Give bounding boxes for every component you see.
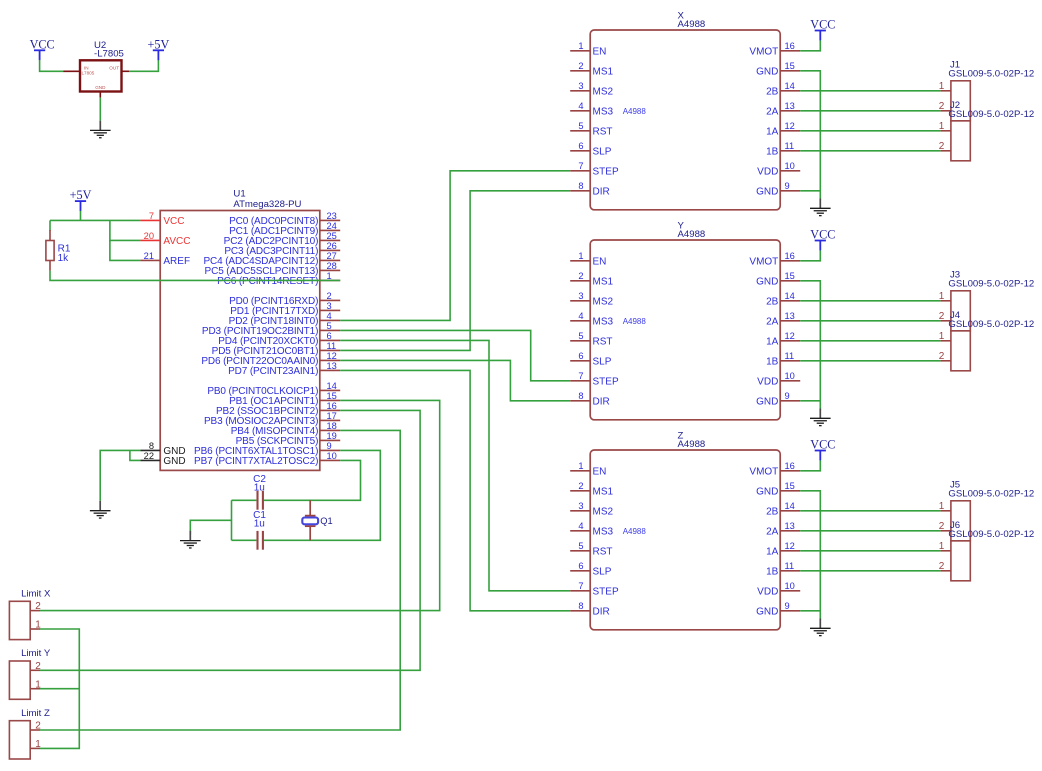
svg-text:1B: 1B bbox=[766, 357, 779, 368]
wire +5V down to R1 bbox=[49, 220, 51, 230]
wire branch to AVCC/AREF bbox=[110, 220, 140, 260]
wire motor phase bbox=[800, 110, 940, 112]
J3 pin 2 bbox=[941, 320, 951, 322]
svg-text:9: 9 bbox=[785, 601, 790, 611]
svg-text:AVCC: AVCC bbox=[163, 236, 190, 247]
svg-text:4: 4 bbox=[578, 101, 583, 111]
J2 pin 1 bbox=[941, 130, 951, 132]
wire +5V horizontal to U1.VCC bbox=[50, 219, 140, 221]
svg-text:1u: 1u bbox=[254, 518, 265, 529]
U1 pin 22 GND bbox=[140, 459, 160, 461]
capacitor C1 1u bbox=[253, 510, 266, 550]
wire crystal left vertical bbox=[231, 500, 233, 540]
Y1 pin 6 SLP bbox=[570, 360, 590, 362]
wire U2.OUT to +5V bbox=[129, 60, 158, 71]
svg-text:2: 2 bbox=[939, 141, 945, 152]
ground (crystal) bbox=[180, 531, 201, 548]
svg-text:8: 8 bbox=[578, 181, 583, 191]
svg-text:3: 3 bbox=[578, 501, 583, 511]
U1 pin 26 PC3 bbox=[320, 249, 340, 251]
svg-text:RST: RST bbox=[593, 547, 613, 558]
wire U2.GND down bbox=[99, 98, 101, 121]
X1 pin 10 VDD bbox=[780, 170, 800, 172]
wire crystal net to ground bbox=[190, 520, 231, 534]
svg-text:14: 14 bbox=[785, 501, 795, 511]
svg-text:2: 2 bbox=[578, 481, 583, 491]
X1 pin 11 1B bbox=[780, 150, 800, 152]
svg-text:8: 8 bbox=[149, 441, 154, 451]
svg-text:A4988: A4988 bbox=[623, 527, 647, 536]
wire motor phase bbox=[800, 360, 940, 362]
svg-text:PD7 (PCINT23AIN1): PD7 (PCINT23AIN1) bbox=[228, 366, 318, 377]
Z1 pin 16 VMOT bbox=[780, 470, 800, 472]
svg-text:28: 28 bbox=[327, 261, 337, 271]
connector J2 GSL009-5.0-02P-12 bbox=[939, 100, 1035, 161]
power flag VCC (input) bbox=[30, 37, 55, 60]
svg-text:1A: 1A bbox=[766, 337, 779, 348]
svg-text:MS2: MS2 bbox=[593, 87, 614, 98]
svg-text:RST: RST bbox=[593, 337, 613, 348]
svg-text:4: 4 bbox=[578, 311, 583, 321]
svg-text:GSL009-5.0-02P-12: GSL009-5.0-02P-12 bbox=[948, 69, 1034, 80]
wire motor phase bbox=[800, 300, 940, 302]
svg-text:5: 5 bbox=[578, 121, 583, 131]
crystal Q1 bbox=[302, 500, 332, 540]
X1 pin 3 MS2 bbox=[570, 90, 590, 92]
svg-text:8: 8 bbox=[578, 601, 583, 611]
wire GND9 join bbox=[800, 190, 820, 192]
svg-text:MS1: MS1 bbox=[593, 67, 614, 78]
ground (below U2) bbox=[90, 121, 111, 138]
svg-text:25: 25 bbox=[327, 231, 337, 241]
svg-text:1k: 1k bbox=[58, 253, 70, 264]
X1 pin 15 GND bbox=[780, 70, 800, 72]
wire VMOT to VCC bbox=[800, 250, 820, 261]
svg-text:11: 11 bbox=[785, 561, 795, 571]
svg-text:2B: 2B bbox=[766, 87, 779, 98]
svg-text:14: 14 bbox=[785, 81, 795, 91]
svg-text:1A: 1A bbox=[766, 547, 779, 558]
svg-text:3: 3 bbox=[578, 81, 583, 91]
svg-text:9: 9 bbox=[785, 181, 790, 191]
svg-text:1B: 1B bbox=[766, 147, 779, 158]
svg-text:GSL009-5.0-02P-12: GSL009-5.0-02P-12 bbox=[948, 529, 1034, 540]
svg-text:SLP: SLP bbox=[593, 357, 612, 368]
svg-text:STEP: STEP bbox=[593, 167, 619, 178]
svg-text:STEP: STEP bbox=[593, 587, 619, 598]
U1 pin 6 PD4 bbox=[320, 339, 340, 341]
Y1 pin 5 RST bbox=[570, 340, 590, 342]
svg-text:2A: 2A bbox=[766, 107, 779, 118]
svg-text:AREF: AREF bbox=[163, 256, 190, 267]
X1 pin 5 RST bbox=[570, 130, 590, 132]
U1 pin 8 GND bbox=[140, 449, 160, 451]
svg-text:16: 16 bbox=[785, 251, 795, 261]
wire PB4 to Limit Z pin2 bbox=[40, 430, 400, 730]
svg-text:11: 11 bbox=[785, 351, 795, 361]
svg-text:2: 2 bbox=[578, 61, 583, 71]
svg-text:1: 1 bbox=[939, 121, 945, 132]
svg-text:13: 13 bbox=[785, 521, 795, 531]
svg-text:MS2: MS2 bbox=[593, 507, 614, 518]
Z1 pin 9 GND bbox=[780, 610, 800, 612]
svg-text:1: 1 bbox=[939, 501, 945, 512]
Z1 pin 1 EN bbox=[570, 470, 590, 472]
wire PD5 to X.DIR bbox=[340, 191, 570, 351]
svg-text:GND: GND bbox=[756, 277, 778, 288]
svg-text:4: 4 bbox=[327, 311, 332, 321]
connector J1 GSL009-5.0-02P-12 bbox=[939, 60, 1035, 121]
svg-text:1: 1 bbox=[578, 41, 583, 51]
wire VCC to U2.IN bbox=[40, 60, 64, 71]
svg-text:2: 2 bbox=[939, 311, 945, 322]
ground (A4988) bbox=[810, 199, 831, 216]
U1 pin 11 PD5 bbox=[320, 349, 340, 351]
svg-text:GSL009-5.0-02P-12: GSL009-5.0-02P-12 bbox=[948, 109, 1034, 120]
X1 pin 16 VMOT bbox=[780, 50, 800, 52]
connector Limit X bbox=[9, 589, 51, 640]
svg-text:7: 7 bbox=[578, 371, 583, 381]
wire GND15 down bbox=[800, 71, 820, 200]
svg-text:Limit Y: Limit Y bbox=[21, 648, 51, 659]
svg-text:A4988: A4988 bbox=[623, 317, 647, 326]
svg-text:1: 1 bbox=[939, 331, 945, 342]
wire motor phase bbox=[800, 340, 940, 342]
svg-text:27: 27 bbox=[327, 251, 337, 261]
svg-text:6: 6 bbox=[327, 331, 332, 341]
wire GND9 join bbox=[800, 400, 820, 402]
svg-text:RST: RST bbox=[593, 127, 613, 138]
svg-text:VCC: VCC bbox=[810, 438, 835, 452]
svg-text:GND: GND bbox=[756, 607, 778, 618]
svg-text:12: 12 bbox=[785, 541, 795, 551]
X1 pin 9 GND bbox=[780, 190, 800, 192]
svg-text:GND: GND bbox=[163, 456, 185, 467]
svg-text:7: 7 bbox=[578, 161, 583, 171]
J6 pin 1 bbox=[941, 550, 951, 552]
X1 pin 6 SLP bbox=[570, 150, 590, 152]
svg-text:A4988: A4988 bbox=[678, 439, 706, 450]
svg-text:MS1: MS1 bbox=[593, 487, 614, 498]
wire motor phase bbox=[800, 320, 940, 322]
svg-text:1B: 1B bbox=[766, 567, 779, 578]
svg-text:12: 12 bbox=[785, 121, 795, 131]
connector Limit Z bbox=[9, 708, 50, 759]
J2 pin 2 bbox=[941, 150, 951, 152]
svg-text:VCC: VCC bbox=[810, 228, 835, 242]
svg-text:ATmega328-PU: ATmega328-PU bbox=[233, 199, 301, 210]
Y1 pin 1 EN bbox=[570, 260, 590, 262]
svg-text:16: 16 bbox=[785, 41, 795, 51]
connector J6 GSL009-5.0-02P-12 bbox=[939, 520, 1035, 581]
J5 pin 1 bbox=[941, 510, 951, 512]
svg-text:1: 1 bbox=[939, 81, 945, 92]
wire PB2 to Limit Y pin2 bbox=[40, 410, 420, 670]
J1 pin 1 bbox=[941, 90, 951, 92]
capacitor C2 1u bbox=[253, 474, 266, 510]
svg-text:11: 11 bbox=[785, 141, 795, 151]
svg-text:GSL009-5.0-02P-12: GSL009-5.0-02P-12 bbox=[948, 489, 1034, 500]
U1 pin 2 PD0 bbox=[320, 299, 340, 301]
svg-text:7: 7 bbox=[578, 581, 583, 591]
Y1 pin 3 MS2 bbox=[570, 300, 590, 302]
svg-text:2A: 2A bbox=[766, 527, 779, 538]
U1 pin 28 PC5 bbox=[320, 269, 340, 271]
svg-text:10: 10 bbox=[785, 581, 795, 591]
svg-text:DIR: DIR bbox=[593, 187, 610, 198]
wire VMOT to VCC bbox=[800, 460, 820, 471]
U1 pin 14 PB0 bbox=[320, 389, 340, 391]
svg-text:2: 2 bbox=[578, 271, 583, 281]
wire R1 to RESET (PC6) bbox=[50, 271, 340, 281]
J1 pin 2 bbox=[941, 110, 951, 112]
Z1 pin 11 1B bbox=[780, 570, 800, 572]
svg-text:GND: GND bbox=[756, 397, 778, 408]
wire GND15 down bbox=[800, 281, 820, 410]
wire PD6 to Y.DIR bbox=[340, 360, 570, 400]
svg-text:6: 6 bbox=[578, 141, 583, 151]
X1 pin 2 MS1 bbox=[570, 70, 590, 72]
wire +5V stem to net bbox=[80, 211, 82, 221]
svg-text:10: 10 bbox=[785, 161, 795, 171]
svg-text:13: 13 bbox=[785, 101, 795, 111]
svg-text:24: 24 bbox=[327, 221, 337, 231]
svg-text:SLP: SLP bbox=[593, 147, 612, 158]
svg-text:16: 16 bbox=[785, 461, 795, 471]
svg-text:GND: GND bbox=[756, 187, 778, 198]
svg-text:VMOT: VMOT bbox=[749, 257, 778, 268]
Z1 pin 13 2A bbox=[780, 530, 800, 532]
svg-text:5: 5 bbox=[578, 541, 583, 551]
svg-text:STEP: STEP bbox=[593, 377, 619, 388]
svg-text:13: 13 bbox=[327, 361, 337, 371]
wire GND15 down bbox=[800, 491, 820, 620]
ground (A4988) bbox=[810, 409, 831, 426]
svg-text:MS2: MS2 bbox=[593, 297, 614, 308]
svg-text:VDD: VDD bbox=[757, 377, 778, 388]
svg-text:9: 9 bbox=[785, 391, 790, 401]
svg-text:6: 6 bbox=[578, 351, 583, 361]
ground (A4988) bbox=[810, 619, 831, 636]
Y1 pin 11 1B bbox=[780, 360, 800, 362]
svg-text:VMOT: VMOT bbox=[749, 47, 778, 58]
J4 pin 2 bbox=[941, 360, 951, 362]
U1 pin 3 PD1 bbox=[320, 309, 340, 311]
Z1 pin 5 RST bbox=[570, 550, 590, 552]
U1 pin 20 AVCC bbox=[140, 239, 160, 241]
svg-text:2: 2 bbox=[327, 291, 332, 301]
X1 pin 13 2A bbox=[780, 110, 800, 112]
svg-text:2B: 2B bbox=[766, 507, 779, 518]
Y1 pin 12 1A bbox=[780, 340, 800, 342]
svg-text:26: 26 bbox=[327, 241, 337, 251]
svg-text:10: 10 bbox=[785, 371, 795, 381]
svg-text:19: 19 bbox=[327, 431, 337, 441]
svg-text:1: 1 bbox=[578, 251, 583, 261]
Z1 pin 12 1A bbox=[780, 550, 800, 552]
U2 pin IN bbox=[63, 70, 80, 72]
Y1 pin 15 GND bbox=[780, 280, 800, 282]
svg-text:1A: 1A bbox=[766, 127, 779, 138]
U1 pin 7 VCC bbox=[140, 219, 160, 221]
svg-text:22: 22 bbox=[144, 451, 154, 461]
svg-text:7: 7 bbox=[149, 211, 154, 221]
wire U1 GND pin8 to ground bbox=[100, 450, 140, 501]
Y1 pin 2 MS1 bbox=[570, 280, 590, 282]
Limit Y pin 2 bbox=[30, 669, 40, 671]
svg-text:L7805: L7805 bbox=[82, 71, 95, 76]
U1 pin 17 PB3 bbox=[320, 419, 340, 421]
svg-text:20: 20 bbox=[144, 231, 154, 241]
U1 pin 12 PD6 bbox=[320, 359, 340, 361]
voltage regulator U2 -L7805 bbox=[63, 40, 129, 98]
U1 pin 19 PB5 bbox=[320, 439, 340, 441]
svg-text:MS1: MS1 bbox=[593, 277, 614, 288]
svg-text:3: 3 bbox=[327, 301, 332, 311]
svg-text:A4988: A4988 bbox=[623, 107, 647, 116]
Z1 pin 10 VDD bbox=[780, 590, 800, 592]
svg-text:VCC: VCC bbox=[810, 18, 835, 32]
svg-text:5: 5 bbox=[578, 331, 583, 341]
svg-text:SLP: SLP bbox=[593, 567, 612, 578]
Z1 pin 3 MS2 bbox=[570, 510, 590, 512]
Z1 pin 8 DIR bbox=[570, 610, 590, 612]
svg-text:1: 1 bbox=[939, 291, 945, 302]
Z1 pin 4 MS3 bbox=[570, 530, 590, 532]
wire PB1 to Limit X pin2 bbox=[40, 400, 440, 610]
U1 pin 1 PC6 bbox=[320, 279, 340, 281]
svg-text:GND: GND bbox=[95, 85, 106, 90]
svg-text:3: 3 bbox=[578, 291, 583, 301]
U1 pin 27 PC4 bbox=[320, 259, 340, 261]
wire GND9 join bbox=[800, 610, 820, 612]
stepper driver Z1 A4988 (Z) bbox=[570, 430, 800, 630]
svg-text:12: 12 bbox=[785, 331, 795, 341]
wire PD4 to Z.STEP bbox=[340, 340, 570, 590]
connector J5 GSL009-5.0-02P-12 bbox=[939, 480, 1035, 541]
Z1 pin 6 SLP bbox=[570, 570, 590, 572]
svg-text:9: 9 bbox=[327, 441, 332, 451]
Z1 pin 14 2B bbox=[780, 510, 800, 512]
svg-text:GSL009-5.0-02P-12: GSL009-5.0-02P-12 bbox=[948, 279, 1034, 290]
Y1 pin 13 2A bbox=[780, 320, 800, 322]
U1 pin 23 PC0 bbox=[320, 219, 340, 221]
Y1 pin 10 VDD bbox=[780, 380, 800, 382]
ground (below U1 GND pins) bbox=[90, 501, 111, 518]
power flag VCC bbox=[810, 18, 835, 41]
svg-text:GSL009-5.0-02P-12: GSL009-5.0-02P-12 bbox=[948, 319, 1034, 330]
U1 pin 15 PB1 bbox=[320, 399, 340, 401]
power flag +5V (regulator output) bbox=[148, 37, 170, 60]
svg-text:8: 8 bbox=[578, 391, 583, 401]
U1 pin 21 AREF bbox=[140, 259, 160, 261]
resistor R1 1k bbox=[46, 230, 71, 271]
svg-text:OUT: OUT bbox=[109, 66, 119, 71]
wire PD3 to Y.STEP bbox=[340, 330, 570, 380]
Y1 pin 16 VMOT bbox=[780, 260, 800, 262]
X1 pin 14 2B bbox=[780, 90, 800, 92]
Y1 pin 9 GND bbox=[780, 400, 800, 402]
J3 pin 1 bbox=[941, 300, 951, 302]
wire PB6 to crystal bottom bbox=[232, 450, 381, 540]
microcontroller U1 ATmega328-PU bbox=[140, 189, 340, 471]
X1 pin 7 STEP bbox=[570, 170, 590, 172]
wire motor phase bbox=[800, 90, 940, 92]
stepper driver Y1 A4988 (Y) bbox=[570, 220, 800, 419]
svg-text:MS3: MS3 bbox=[593, 107, 614, 118]
U1 pin 10 PB7 bbox=[320, 459, 340, 461]
power flag VCC bbox=[810, 228, 835, 251]
svg-text:10: 10 bbox=[327, 451, 337, 461]
svg-text:VMOT: VMOT bbox=[749, 467, 778, 478]
Y1 pin 14 2B bbox=[780, 300, 800, 302]
svg-text:GND: GND bbox=[756, 487, 778, 498]
wire U1 GND pin22 join bbox=[130, 450, 141, 460]
J6 pin 2 bbox=[941, 570, 951, 572]
svg-text:DIR: DIR bbox=[593, 397, 610, 408]
svg-text:VCC: VCC bbox=[163, 216, 184, 227]
wire motor phase bbox=[800, 550, 940, 552]
power flag +5V (at U1) bbox=[70, 188, 92, 211]
svg-text:12: 12 bbox=[327, 351, 337, 361]
svg-text:GND: GND bbox=[756, 67, 778, 78]
U1 pin 18 PB4 bbox=[320, 429, 340, 431]
wire PB7 to crystal top bbox=[232, 460, 361, 500]
svg-text:15: 15 bbox=[785, 61, 795, 71]
svg-text:+5V: +5V bbox=[70, 188, 92, 202]
svg-text:6: 6 bbox=[578, 561, 583, 571]
U1 pin 4 PD2 bbox=[320, 319, 340, 321]
stepper driver X1 A4988 (X) bbox=[570, 10, 800, 210]
svg-text:DIR: DIR bbox=[593, 607, 610, 618]
svg-text:A4988: A4988 bbox=[678, 229, 706, 240]
svg-text:2: 2 bbox=[939, 351, 945, 362]
connector J3 GSL009-5.0-02P-12 bbox=[939, 270, 1035, 331]
svg-text:MS3: MS3 bbox=[593, 527, 614, 538]
svg-text:15: 15 bbox=[785, 481, 795, 491]
svg-text:18: 18 bbox=[327, 421, 337, 431]
X1 pin 1 EN bbox=[570, 50, 590, 52]
Limit Z pin 1 bbox=[30, 747, 40, 749]
svg-text:2: 2 bbox=[939, 521, 945, 532]
svg-text:17: 17 bbox=[327, 411, 337, 421]
svg-text:23: 23 bbox=[327, 211, 337, 221]
svg-text:-L7805: -L7805 bbox=[94, 49, 124, 60]
wire motor phase bbox=[800, 570, 940, 572]
svg-text:MS3: MS3 bbox=[593, 317, 614, 328]
U2 pin GND bbox=[99, 92, 101, 98]
svg-text:13: 13 bbox=[785, 311, 795, 321]
svg-text:5: 5 bbox=[327, 321, 332, 331]
wire limit pin1 chain bbox=[40, 629, 79, 748]
svg-text:EN: EN bbox=[593, 467, 607, 478]
svg-text:EN: EN bbox=[593, 257, 607, 268]
Limit X pin 2 bbox=[30, 610, 40, 612]
svg-text:15: 15 bbox=[785, 271, 795, 281]
X1 pin 12 1A bbox=[780, 130, 800, 132]
svg-text:VDD: VDD bbox=[757, 587, 778, 598]
svg-text:15: 15 bbox=[327, 391, 337, 401]
svg-text:1: 1 bbox=[578, 461, 583, 471]
connector Limit Y bbox=[9, 648, 50, 699]
wire PD2 to X.STEP bbox=[340, 171, 570, 321]
Z1 pin 15 GND bbox=[780, 490, 800, 492]
wire motor phase bbox=[800, 130, 940, 132]
svg-text:VCC: VCC bbox=[30, 37, 55, 51]
svg-text:14: 14 bbox=[785, 291, 795, 301]
U1 pin 24 PC1 bbox=[320, 229, 340, 231]
svg-text:4: 4 bbox=[578, 521, 583, 531]
